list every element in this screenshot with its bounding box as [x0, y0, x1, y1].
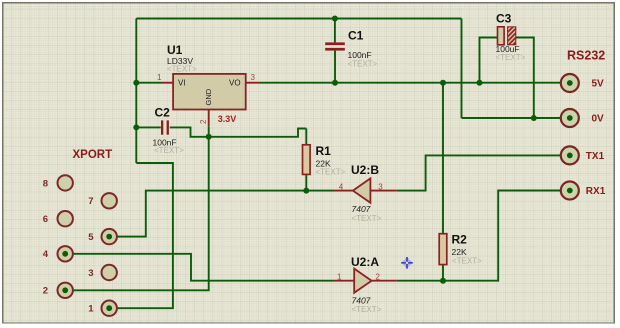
svg-text:4: 4 — [43, 249, 49, 260]
svg-text:<TEXT>: <TEXT> — [316, 168, 346, 177]
svg-text:<TEXT>: <TEXT> — [167, 65, 197, 74]
svg-text:R2: R2 — [452, 233, 468, 247]
svg-text:5: 5 — [88, 232, 94, 243]
svg-text:<TEXT>: <TEXT> — [496, 53, 526, 62]
wire R2 bottom — [442, 265, 444, 281]
wire C3 left riser — [480, 38, 498, 83]
svg-text:2: 2 — [43, 286, 48, 297]
junction 3.3V net — [206, 134, 212, 140]
capacitor C1 — [325, 29, 377, 69]
svg-text:<TEXT>: <TEXT> — [348, 60, 378, 69]
svg-text:C2: C2 — [155, 106, 171, 120]
XPORT pin 4 — [43, 246, 73, 261]
wire C3 right riser — [516, 38, 534, 119]
XPORT pin 2 — [43, 283, 73, 298]
svg-text:3: 3 — [251, 73, 256, 82]
svg-text:2: 2 — [376, 273, 381, 282]
svg-text:2: 2 — [199, 119, 208, 124]
svg-text:3: 3 — [378, 183, 383, 192]
svg-text:1: 1 — [88, 304, 94, 315]
wire R1 bottom pin — [305, 174, 307, 190]
svg-text:XPORT: XPORT — [73, 149, 113, 161]
capacitor C3 (polarized) — [496, 12, 526, 63]
svg-text:0V: 0V — [592, 114, 605, 125]
wire C2 right to R1 top — [170, 127, 306, 136]
svg-text:1: 1 — [157, 73, 162, 82]
junction R2 top on 5V rail — [440, 80, 446, 86]
terminal RX1 — [561, 182, 606, 200]
svg-text:6: 6 — [43, 214, 48, 225]
svg-text:22K: 22K — [452, 247, 467, 257]
svg-text:<TEXT>: <TEXT> — [154, 146, 184, 155]
wire 5V rail — [259, 82, 561, 84]
wire 0V top rail — [136, 18, 461, 20]
junction C1 bottom on 5V rail — [332, 80, 338, 86]
svg-text:U2:B: U2:B — [351, 163, 379, 177]
svg-text:3.3V: 3.3V — [218, 114, 237, 124]
wire 3.3V net to XPORT pin2 — [73, 126, 209, 290]
junction C3 right on 0V — [531, 115, 537, 121]
wire XPORT pin4 to U2:A input — [73, 254, 333, 281]
svg-text:7407: 7407 — [352, 204, 371, 214]
svg-text:RX1: RX1 — [586, 186, 606, 197]
terminal TX1 — [561, 146, 605, 164]
wire to 0V terminal — [462, 117, 561, 119]
junction C1 top — [332, 16, 338, 22]
svg-text:<TEXT>: <TEXT> — [352, 305, 382, 314]
wire C1 top stub — [334, 19, 336, 43]
wire U2:B output to TX1 — [397, 155, 561, 190]
wire C2 left — [136, 126, 161, 128]
svg-text:100nF: 100nF — [348, 50, 372, 60]
XPORT pin 3 — [88, 265, 117, 280]
wire XPORT pin5 to U2:B input — [117, 191, 333, 237]
junction C3 left on 5V rail — [477, 80, 483, 86]
svg-text:7: 7 — [88, 196, 93, 207]
junction C2 left — [133, 124, 139, 130]
svg-text:GND: GND — [204, 88, 213, 105]
svg-text:<TEXT>: <TEXT> — [452, 257, 482, 266]
svg-text:<TEXT>: <TEXT> — [352, 214, 382, 223]
svg-text:VO: VO — [229, 79, 241, 88]
junction R2 bottom — [440, 278, 446, 284]
svg-text:7407: 7407 — [352, 296, 371, 306]
regulator U1 — [157, 43, 259, 126]
junction U1 pin1 — [133, 80, 139, 86]
svg-text:C1: C1 — [348, 29, 364, 43]
svg-text:U2:A: U2:A — [351, 255, 379, 269]
terminal 5V — [561, 74, 604, 92]
svg-text:R1: R1 — [316, 144, 332, 158]
svg-text:4: 4 — [339, 183, 344, 192]
wire VI to XPORT pin1 — [117, 163, 173, 308]
svg-text:3: 3 — [88, 268, 93, 279]
svg-text:5V: 5V — [592, 79, 605, 90]
svg-text:C3: C3 — [496, 12, 512, 26]
wire VI left vertical — [135, 19, 137, 164]
XPORT pin 1 — [88, 301, 117, 316]
marker origin cross — [401, 257, 413, 269]
XPORT pin 7 — [88, 193, 117, 208]
resistor R1 — [303, 144, 346, 177]
buffer U2:B (7407, mirrored) — [334, 163, 397, 223]
wire R1 top pin — [305, 129, 307, 145]
svg-text:RS232: RS232 — [567, 49, 605, 63]
buffer U2:A (7407) — [334, 255, 397, 314]
XPORT pin 5 — [88, 229, 117, 244]
wire C1 bottom stub — [334, 51, 336, 83]
capacitor C2 — [153, 106, 185, 156]
wire 0V right drop — [461, 19, 463, 119]
junction R1 bottom — [303, 188, 309, 194]
svg-text:8: 8 — [43, 178, 48, 189]
terminal 0V — [561, 109, 604, 127]
resistor R2 — [439, 233, 482, 266]
svg-text:VI: VI — [178, 79, 186, 88]
XPORT pin 8 — [43, 175, 73, 190]
wire U1 pin1 — [136, 82, 162, 84]
XPORT pin 6 — [43, 211, 73, 226]
wire U2:A output to RX1 — [397, 191, 561, 281]
svg-text:1: 1 — [337, 273, 342, 282]
svg-text:TX1: TX1 — [586, 151, 605, 162]
wire R2 top — [442, 83, 444, 234]
